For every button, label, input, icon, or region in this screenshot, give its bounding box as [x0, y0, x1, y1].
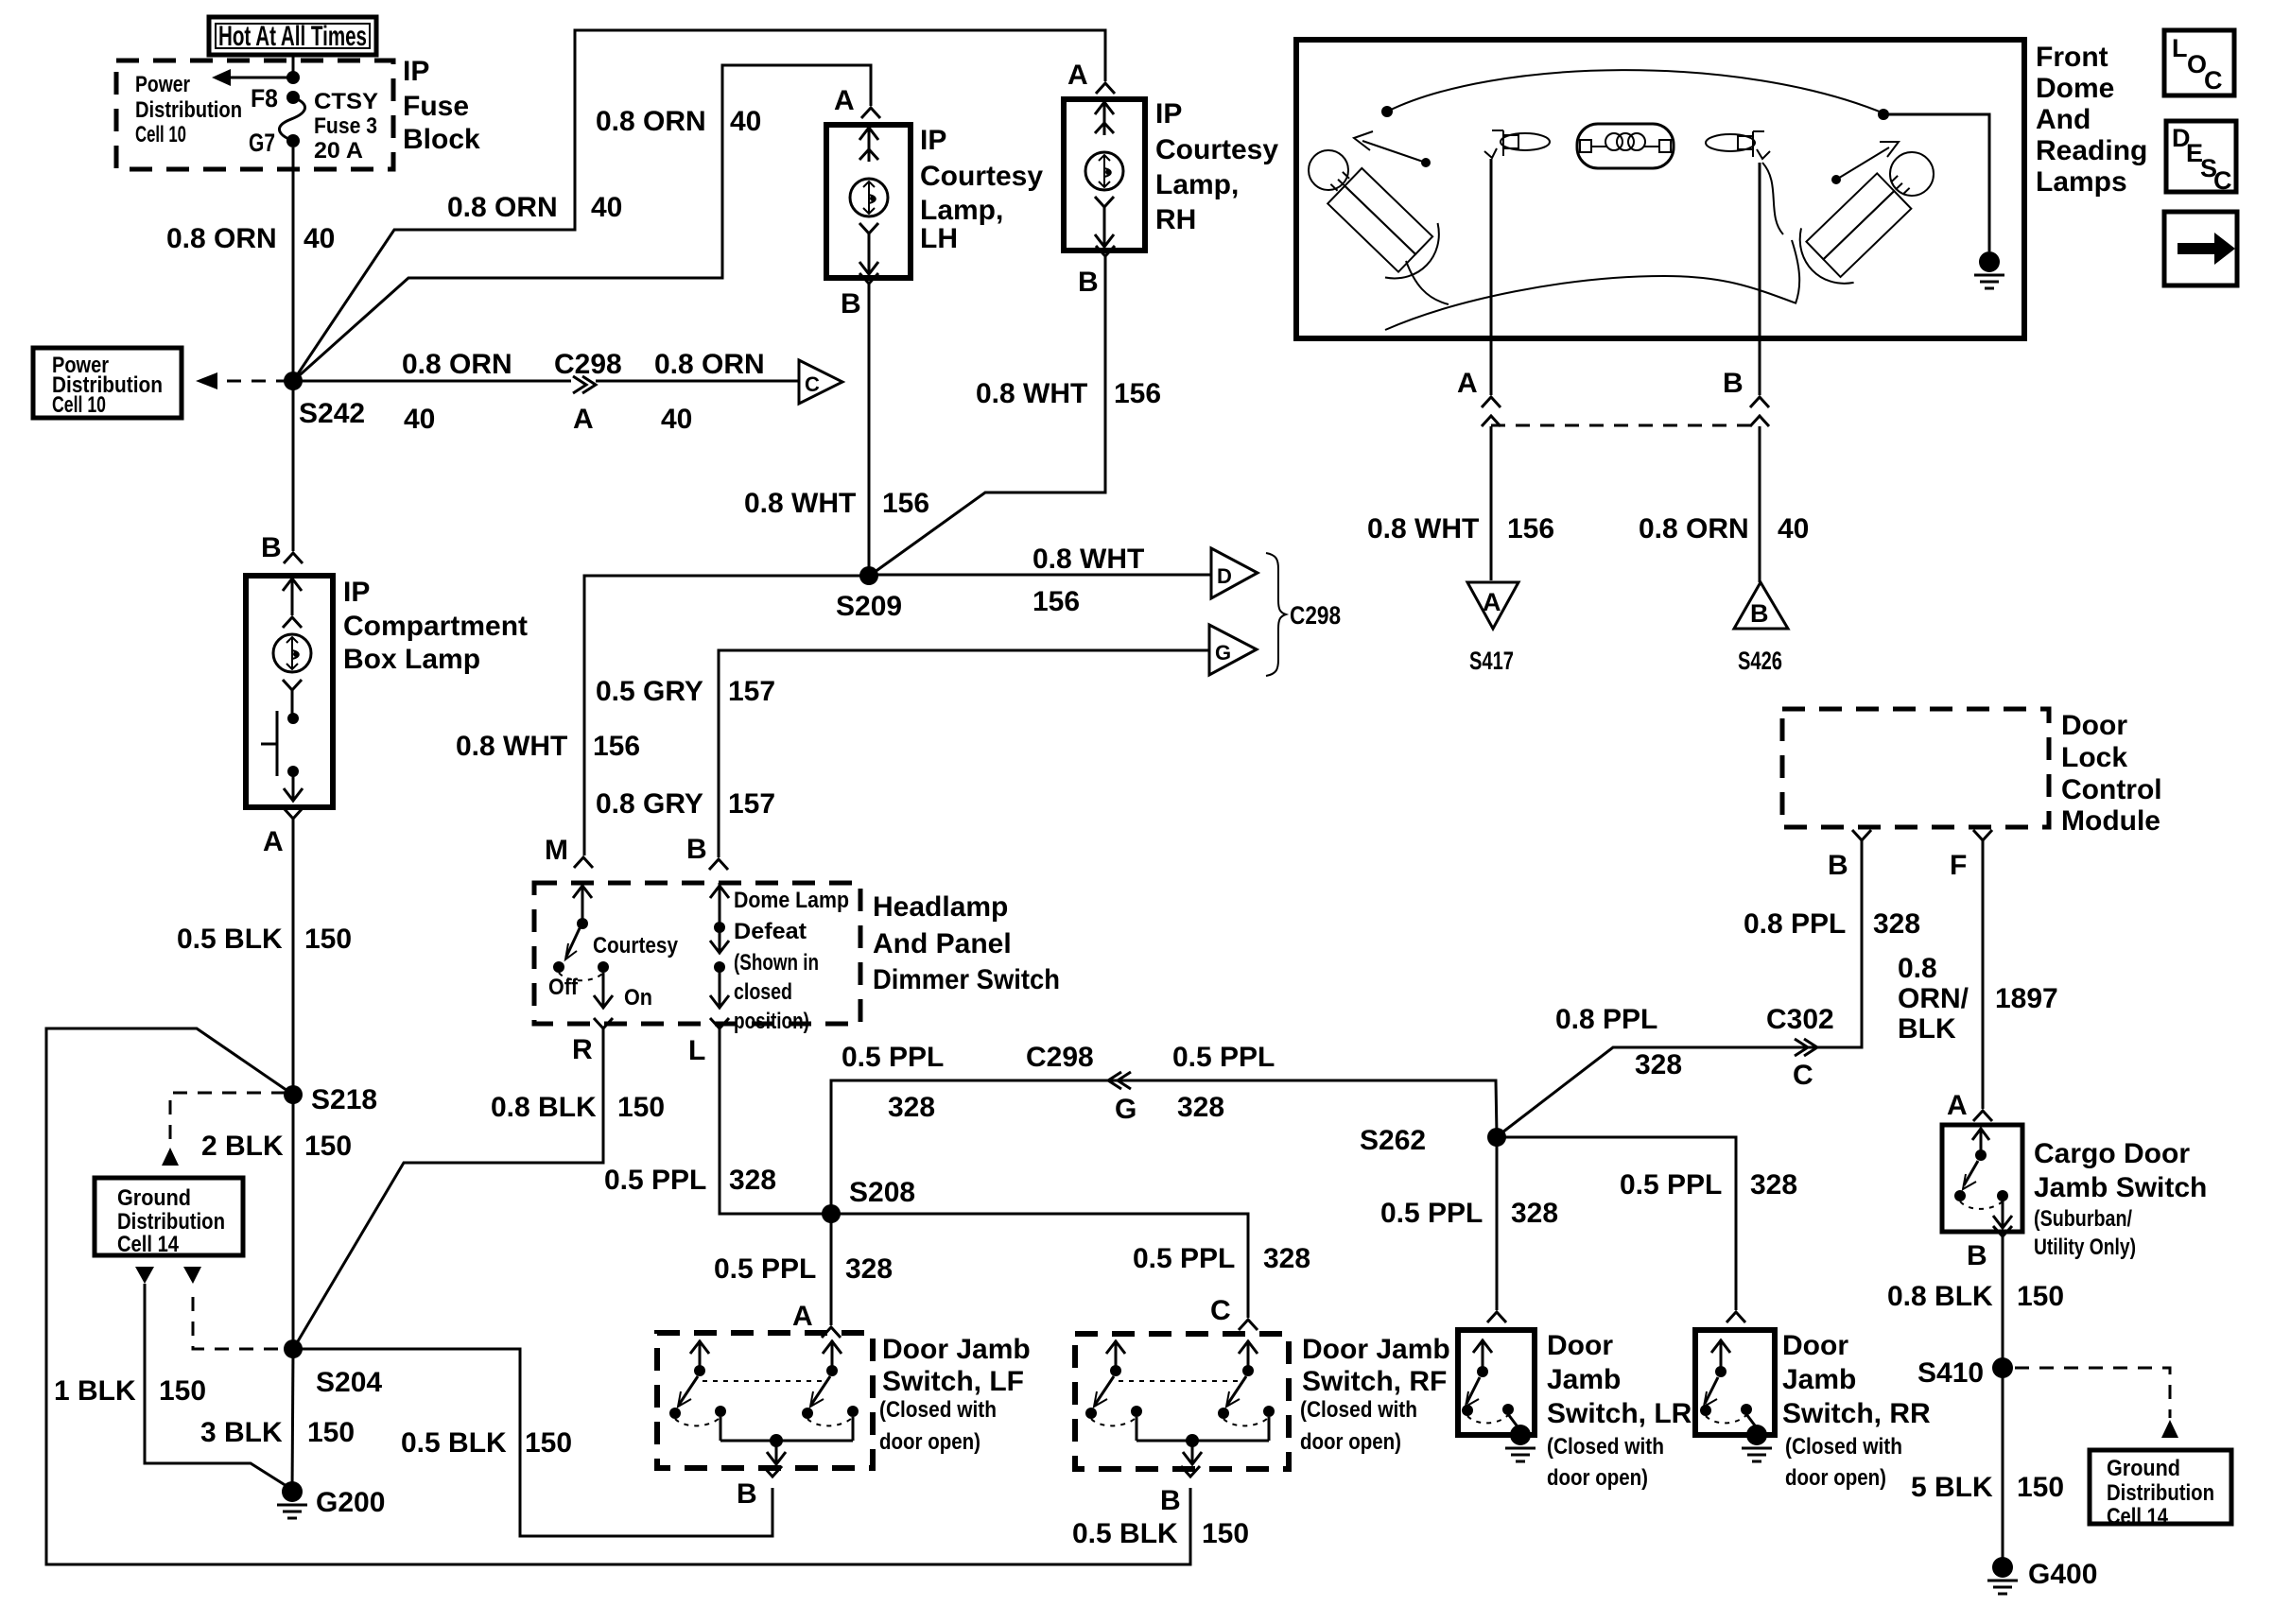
svg-text:Switch, LR: Switch, LR	[1547, 1398, 1692, 1429]
svg-text:0.5 BLK: 0.5 BLK	[401, 1427, 507, 1459]
svg-text:3 BLK: 3 BLK	[200, 1417, 283, 1448]
svg-text:150: 150	[617, 1092, 665, 1123]
wire 0.5 PPL 328 dimmer L to S208	[720, 1028, 828, 1214]
ground G200	[282, 1481, 303, 1502]
wire 5 BLK 150 S410 to G400	[2002, 1368, 2004, 1560]
svg-text:And Panel: And Panel	[873, 928, 1012, 959]
svg-text:Distribution: Distribution	[2107, 1480, 2214, 1506]
svg-text:157: 157	[728, 788, 775, 820]
svg-text:L: L	[688, 1035, 705, 1066]
svg-text:40: 40	[304, 223, 335, 254]
svg-text:0.5 BLK: 0.5 BLK	[1072, 1518, 1178, 1549]
svg-text:Door: Door	[1782, 1330, 1848, 1361]
node S410	[1992, 1357, 2013, 1378]
svg-text:IP: IP	[1155, 98, 1182, 130]
wire fuse block feed	[292, 53, 295, 75]
dashed wire S242 to power distribution	[227, 380, 286, 383]
svg-text:A: A	[1947, 1090, 1968, 1121]
arrow legend box	[2164, 212, 2237, 285]
svg-text:150: 150	[307, 1417, 355, 1448]
fuse CTSY Fuse 3 20A symbol	[286, 91, 300, 104]
lamp and switch symbol (box lamp)	[291, 579, 294, 615]
wire 0.8 ORN 40 fuse to S242	[292, 147, 295, 381]
svg-text:0.8 ORN: 0.8 ORN	[654, 349, 765, 380]
svg-text:150: 150	[304, 924, 352, 955]
door jamb switch RF contacts	[1119, 1380, 1244, 1382]
ground G400	[1992, 1557, 2013, 1578]
svg-text:S209: S209	[836, 591, 902, 622]
svg-text:Ground: Ground	[2107, 1456, 2180, 1481]
wire 0.5 PPL 328 S208 to door jamb LF	[830, 1214, 833, 1325]
svg-text:And: And	[2036, 104, 2091, 135]
svg-text:R: R	[572, 1034, 593, 1065]
svg-text:B: B	[1160, 1485, 1181, 1516]
svg-text:Utility Only): Utility Only)	[2034, 1235, 2136, 1260]
svg-text:IP: IP	[343, 577, 370, 608]
svg-text:Power: Power	[135, 72, 190, 97]
dashed wire S218 to ground distribution	[170, 1093, 286, 1146]
svg-text:156: 156	[593, 731, 640, 762]
svg-text:1897: 1897	[1995, 983, 2058, 1014]
svg-text:Compartment: Compartment	[343, 611, 528, 642]
svg-text:0.5 PPL: 0.5 PPL	[842, 1042, 944, 1073]
reading lamp bulb right	[1786, 131, 1954, 297]
festoon dome bulb	[1577, 124, 1674, 168]
node S209	[859, 566, 878, 585]
ground distribution cell 14 box (right)	[2090, 1450, 2231, 1524]
svg-text:A: A	[1067, 60, 1088, 91]
svg-text:Fuse 3: Fuse 3	[314, 113, 377, 139]
svg-text:BLK: BLK	[1898, 1013, 1956, 1045]
cargo door jamb switch box	[1942, 1125, 2022, 1232]
connector triangle D	[1211, 548, 1258, 598]
svg-text:40: 40	[1778, 513, 1809, 544]
svg-text:40: 40	[404, 404, 435, 435]
svg-text:Cell 10: Cell 10	[52, 392, 106, 418]
svg-text:0.5 PPL: 0.5 PPL	[604, 1165, 706, 1196]
svg-text:Door: Door	[1547, 1330, 1613, 1361]
IP courtesy lamp RH box	[1064, 99, 1145, 251]
svg-text:0.5 PPL: 0.5 PPL	[1133, 1243, 1235, 1274]
svg-text:door open): door open)	[879, 1429, 980, 1455]
front dome and reading lamps box	[1296, 40, 2024, 338]
svg-text:0.5 PPL: 0.5 PPL	[1172, 1042, 1275, 1073]
svg-text:Ground: Ground	[117, 1185, 191, 1211]
wire 1 BLK 150 ground distribution to G200	[135, 1267, 154, 1284]
ground (dome lamp)	[1979, 251, 2000, 272]
svg-text:0.8 GRY: 0.8 GRY	[596, 788, 703, 820]
svg-text:328: 328	[1511, 1198, 1558, 1229]
svg-text:C302: C302	[1766, 1004, 1834, 1035]
wire 0.5 PPL 328 S262 to door jamb RR	[1497, 1137, 1736, 1310]
wire S242 to C298 A	[293, 380, 571, 383]
svg-text:Courtesy: Courtesy	[593, 933, 679, 959]
svg-text:156: 156	[882, 488, 929, 519]
wedge bulb left	[1501, 133, 1550, 150]
svg-text:S426: S426	[1738, 647, 1782, 675]
svg-text:A: A	[573, 404, 594, 435]
svg-text:0.8 ORN: 0.8 ORN	[166, 223, 277, 254]
svg-text:Headlamp: Headlamp	[873, 891, 1008, 923]
wire 0.5 BLK 150 S218 to door jamb RF B	[46, 1028, 1190, 1564]
svg-text:Reading: Reading	[2036, 135, 2147, 166]
svg-text:150: 150	[159, 1375, 206, 1407]
svg-text:328: 328	[1635, 1049, 1682, 1080]
svg-text:L: L	[2172, 34, 2188, 62]
door jamb switch RR contacts	[1720, 1339, 1723, 1370]
svg-text:0.8 ORN: 0.8 ORN	[1639, 513, 1749, 544]
svg-text:0.8 BLK: 0.8 BLK	[1887, 1281, 1993, 1312]
svg-text:Courtesy: Courtesy	[920, 161, 1043, 192]
wire C298 A to C triangle	[596, 380, 799, 383]
svg-text:C298: C298	[1290, 601, 1341, 630]
connector L (dimmer)	[710, 1018, 729, 1028]
svg-text:Lamp,: Lamp,	[1155, 169, 1239, 200]
svg-text:IP: IP	[920, 125, 946, 156]
wire S242 to box lamp	[292, 381, 295, 551]
svg-text:RH: RH	[1155, 204, 1196, 235]
svg-text:328: 328	[1263, 1243, 1310, 1274]
svg-text:G: G	[1215, 641, 1231, 665]
dashed wire ground distribution to S204	[183, 1267, 201, 1284]
dome harness bottom arc	[1385, 276, 1796, 330]
svg-text:Defeat: Defeat	[734, 919, 807, 944]
svg-text:156: 156	[1114, 378, 1161, 409]
svg-text:B: B	[1750, 599, 1769, 628]
wire 0.5 PPL 328 S208 to C298 G to S262	[831, 1080, 1497, 1214]
svg-text:B: B	[1723, 368, 1744, 399]
connector C298 A chevrons	[573, 376, 586, 393]
connector A (box lamp)	[284, 808, 303, 819]
ground distribution cell 14 box (left)	[95, 1178, 243, 1255]
brace C298	[1266, 553, 1286, 676]
svg-text:150: 150	[304, 1131, 352, 1162]
dome harness right arrow	[1836, 147, 1889, 180]
connector F (module)	[1973, 830, 1992, 840]
wire 0.8 BLK 150 cargo B to S410	[2002, 1236, 2004, 1368]
wire 2 BLK 150 S218 to S204	[292, 1095, 295, 1349]
wire dome lamp B out	[1759, 163, 1761, 395]
svg-text:328: 328	[888, 1092, 935, 1123]
node S262	[1487, 1128, 1506, 1147]
svg-text:G: G	[1115, 1094, 1136, 1125]
svg-text:156: 156	[1507, 513, 1554, 544]
svg-text:Lamps: Lamps	[2036, 166, 2127, 198]
svg-text:C: C	[1210, 1295, 1231, 1326]
svg-text:Lamp,: Lamp,	[920, 195, 1003, 226]
node S218	[284, 1085, 303, 1104]
svg-text:0.8 WHT: 0.8 WHT	[744, 488, 856, 519]
svg-text:Hot At All Times: Hot At All Times	[218, 21, 367, 52]
svg-text:CTSY: CTSY	[314, 89, 378, 114]
svg-text:0.8 WHT: 0.8 WHT	[976, 378, 1087, 409]
label Hot At All Times	[209, 17, 376, 55]
svg-text:G7: G7	[249, 129, 275, 157]
dome lamp defeat switch (dimmer)	[719, 883, 721, 924]
svg-text:C: C	[1793, 1060, 1813, 1091]
connector B (RF)	[1181, 1466, 1200, 1477]
svg-text:40: 40	[730, 106, 761, 137]
svg-text:0.5 PPL: 0.5 PPL	[1380, 1198, 1483, 1229]
svg-text:Distribution: Distribution	[117, 1209, 225, 1235]
svg-text:Front: Front	[2036, 42, 2108, 73]
svg-text:328: 328	[845, 1253, 893, 1285]
dome harness top arc	[1387, 70, 1886, 114]
svg-text:0.8 BLK: 0.8 BLK	[491, 1092, 597, 1123]
svg-text:B: B	[1078, 267, 1099, 298]
lamp symbol LH	[868, 125, 871, 162]
svg-text:156: 156	[1032, 586, 1080, 617]
dashed connector line (dome A-B)	[1491, 424, 1760, 427]
door jamb switch LR box	[1458, 1330, 1535, 1435]
svg-text:Dome: Dome	[2036, 73, 2114, 104]
svg-text:C: C	[2213, 166, 2232, 195]
wire 0.5 PPL 328 S208 to door jamb RF	[831, 1214, 1248, 1318]
door jamb switch LF box (dashed)	[657, 1333, 873, 1468]
svg-text:Cell 10: Cell 10	[135, 122, 186, 147]
svg-text:0.5 GRY: 0.5 GRY	[596, 676, 703, 707]
svg-text:0.8 ORN: 0.8 ORN	[596, 106, 706, 137]
svg-text:0.8 WHT: 0.8 WHT	[456, 731, 567, 762]
svg-text:LH: LH	[920, 223, 958, 254]
connector C298 G chevrons	[1118, 1072, 1131, 1089]
svg-text:D: D	[1217, 564, 1232, 588]
svg-text:S218: S218	[311, 1084, 377, 1115]
dashed wire S410 to ground distribution (right)	[2015, 1368, 2170, 1418]
svg-text:door open): door open)	[1300, 1429, 1401, 1455]
door lock control module box (dashed)	[1782, 709, 2049, 827]
svg-text:150: 150	[1202, 1518, 1249, 1549]
IP courtesy lamp LH box	[826, 125, 911, 278]
LOC legend box	[2164, 30, 2234, 95]
node S204	[284, 1339, 303, 1358]
splice triangle A S417	[1467, 582, 1518, 629]
wire 0.8 BLK 150 dimmer R to S204	[295, 1028, 603, 1346]
svg-text:0.8 PPL: 0.8 PPL	[1555, 1004, 1657, 1035]
svg-text:Switch, LF: Switch, LF	[882, 1366, 1024, 1397]
svg-text:ORN/: ORN/	[1898, 983, 1969, 1014]
svg-text:position): position)	[734, 1009, 809, 1034]
svg-text:Dimmer Switch: Dimmer Switch	[873, 964, 1060, 995]
svg-text:150: 150	[525, 1427, 572, 1459]
svg-text:G200: G200	[316, 1487, 385, 1518]
svg-text:S204: S204	[316, 1367, 382, 1398]
svg-text:0.5 PPL: 0.5 PPL	[1620, 1169, 1722, 1201]
svg-text:A: A	[834, 85, 855, 116]
DESC legend box	[2166, 121, 2236, 192]
IP fuse block (dashed)	[116, 60, 393, 169]
svg-text:328: 328	[1873, 908, 1920, 940]
ground (RR switch)	[1746, 1425, 1767, 1445]
dome harness left arrow	[1362, 141, 1426, 163]
svg-text:157: 157	[728, 676, 775, 707]
svg-text:(Closed with: (Closed with	[879, 1397, 997, 1423]
ground (LR switch)	[1510, 1425, 1531, 1445]
junction dot F8 feed	[286, 71, 300, 84]
wire 0.8 PPL 328 module B to C302 to S262	[1499, 840, 1862, 1135]
wire 3 BLK 150 S204 to G200	[292, 1349, 293, 1492]
svg-text:Lock: Lock	[2061, 742, 2127, 773]
svg-text:C298: C298	[1026, 1042, 1094, 1073]
door jamb switch LF contacts	[703, 1380, 828, 1382]
wire 0.8 ORN/BLK 1897 module F to cargo switch	[1982, 840, 1985, 1109]
splice triangle B S426	[1734, 582, 1788, 629]
svg-text:(Closed with: (Closed with	[1547, 1434, 1664, 1460]
door jamb switch RF box (dashed)	[1075, 1334, 1289, 1469]
svg-text:(Closed with: (Closed with	[1785, 1434, 1902, 1460]
wire arrow to power distribution	[231, 77, 291, 79]
svg-text:IP: IP	[403, 56, 429, 87]
svg-text:(Suburban/: (Suburban/	[2034, 1206, 2132, 1232]
wedge bulb right	[1706, 134, 1755, 151]
wire 0.5 BLK 150 S204 to door jamb LF B	[293, 1349, 772, 1536]
wire 0.8 WHT 156 RH lamp B to S209	[871, 256, 1105, 575]
svg-text:328: 328	[1177, 1092, 1224, 1123]
svg-text:Module: Module	[2061, 805, 2160, 837]
wire 0.8 WHT 156 S209 to C298 D	[869, 574, 1211, 577]
svg-text:0.8 WHT: 0.8 WHT	[1367, 513, 1479, 544]
lamp symbol RH	[1103, 99, 1106, 135]
connector R (dimmer)	[594, 1018, 613, 1028]
connector B (cargo)	[1993, 1226, 2012, 1236]
headlamp and panel dimmer switch box (dashed)	[534, 883, 860, 1024]
wire 0.5 PPL 328 S262 to door jamb LR	[1496, 1137, 1499, 1310]
cargo door jamb switch contacts	[1980, 1128, 1983, 1152]
svg-text:S262: S262	[1360, 1125, 1426, 1156]
connector C302 C chevrons	[1795, 1039, 1808, 1056]
svg-text:C298: C298	[554, 349, 622, 380]
svg-text:closed: closed	[734, 979, 792, 1005]
reading lamp bulb left	[1288, 130, 1453, 293]
svg-text:328: 328	[729, 1165, 776, 1196]
connector B (module)	[1852, 830, 1871, 840]
svg-text:C: C	[805, 372, 820, 396]
svg-text:Jamb: Jamb	[1782, 1364, 1856, 1395]
connector triangle G	[1209, 625, 1257, 675]
svg-text:A: A	[1457, 368, 1478, 399]
connector B (RH lamp)	[1096, 246, 1115, 256]
svg-text:Cargo Door: Cargo Door	[2034, 1138, 2190, 1169]
svg-text:B: B	[686, 834, 707, 865]
svg-text:Dome Lamp: Dome Lamp	[734, 888, 849, 913]
door jamb switch LR contacts	[1482, 1339, 1484, 1370]
svg-text:S242: S242	[299, 398, 365, 429]
svg-text:door open): door open)	[1785, 1465, 1886, 1491]
svg-text:Off: Off	[548, 975, 579, 1000]
svg-text:B: B	[1967, 1240, 1987, 1271]
svg-text:0.5 BLK: 0.5 BLK	[177, 924, 283, 955]
svg-text:S410: S410	[1917, 1357, 1984, 1389]
svg-text:M: M	[545, 835, 568, 866]
svg-text:G400: G400	[2028, 1559, 2097, 1590]
svg-text:Cell 14: Cell 14	[117, 1232, 180, 1257]
wire dome to ground (inside box)	[1883, 114, 1989, 251]
svg-text:1 BLK: 1 BLK	[54, 1375, 136, 1407]
svg-text:B: B	[841, 288, 861, 320]
svg-text:Block: Block	[403, 124, 480, 155]
svg-text:Door: Door	[2061, 710, 2127, 741]
svg-text:40: 40	[591, 192, 622, 223]
svg-text:A: A	[792, 1301, 813, 1332]
connector triangle C	[799, 360, 842, 404]
svg-text:A: A	[263, 826, 284, 857]
svg-text:C: C	[2204, 66, 2223, 95]
svg-text:2 BLK: 2 BLK	[201, 1131, 284, 1162]
wire 0.8 ORN 40 S242 to IP courtesy lamp LH	[293, 65, 871, 381]
svg-text:On: On	[624, 985, 652, 1011]
node S208	[822, 1204, 841, 1223]
svg-text:B: B	[737, 1478, 757, 1510]
svg-text:F8: F8	[251, 84, 278, 112]
connector B (LH lamp)	[859, 273, 878, 284]
courtesy switch (dimmer)	[581, 883, 584, 922]
svg-text:150: 150	[2017, 1281, 2064, 1312]
wire dome lamp A out	[1490, 159, 1493, 395]
door jamb switch RR box	[1695, 1330, 1775, 1435]
svg-text:Door Jamb: Door Jamb	[1302, 1334, 1450, 1365]
svg-text:Switch, RF: Switch, RF	[1302, 1366, 1447, 1397]
wire 0.8 WHT 156 LH lamp B to S209	[868, 284, 871, 576]
svg-text:(Closed with: (Closed with	[1300, 1397, 1417, 1423]
svg-text:20 A: 20 A	[314, 138, 363, 164]
svg-text:Door Jamb: Door Jamb	[882, 1334, 1031, 1365]
svg-text:Switch, RR: Switch, RR	[1782, 1398, 1931, 1429]
svg-text:Cell 14: Cell 14	[2107, 1504, 2169, 1529]
wire 0.8 WHT 156 S209 to dimmer M	[584, 576, 869, 855]
svg-text:F: F	[1950, 850, 1967, 881]
svg-text:150: 150	[2017, 1472, 2064, 1503]
svg-text:B: B	[261, 532, 282, 563]
wire 0.5 BLK 150 box lamp to S218	[292, 819, 295, 1095]
svg-text:0.8: 0.8	[1898, 953, 1937, 984]
connector B (LF)	[763, 1466, 782, 1477]
svg-text:S417: S417	[1469, 647, 1514, 675]
wire 0.5 GRY 157 C298 G to dimmer B	[719, 650, 1209, 857]
svg-text:Control: Control	[2061, 774, 2162, 805]
svg-text:Fuse: Fuse	[403, 91, 469, 122]
svg-text:5 BLK: 5 BLK	[1911, 1472, 1993, 1503]
svg-text:Jamb Switch: Jamb Switch	[2034, 1172, 2207, 1203]
svg-text:0.8 WHT: 0.8 WHT	[1032, 544, 1144, 575]
svg-text:S208: S208	[849, 1177, 915, 1208]
svg-text:door open): door open)	[1547, 1465, 1648, 1491]
svg-text:Distribution: Distribution	[135, 97, 242, 123]
svg-text:0.5 PPL: 0.5 PPL	[714, 1253, 816, 1285]
node S242	[284, 371, 303, 390]
svg-text:Box Lamp: Box Lamp	[343, 644, 480, 675]
svg-text:B: B	[1828, 850, 1848, 881]
svg-text:Jamb: Jamb	[1547, 1364, 1621, 1395]
svg-text:A: A	[1483, 588, 1501, 616]
svg-text:(Shown in: (Shown in	[734, 950, 819, 976]
svg-text:0.8 ORN: 0.8 ORN	[402, 349, 512, 380]
wire 0.8 ORN 40 S242 to IP courtesy lamp RH	[293, 30, 1105, 381]
svg-text:0.8 PPL: 0.8 PPL	[1744, 908, 1846, 940]
svg-text:40: 40	[661, 404, 692, 435]
svg-text:Courtesy: Courtesy	[1155, 134, 1278, 165]
power distribution box (left)	[33, 348, 182, 418]
svg-text:328: 328	[1750, 1169, 1797, 1201]
svg-text:0.8 ORN: 0.8 ORN	[447, 192, 558, 223]
IP compartment box lamp box	[246, 576, 333, 807]
